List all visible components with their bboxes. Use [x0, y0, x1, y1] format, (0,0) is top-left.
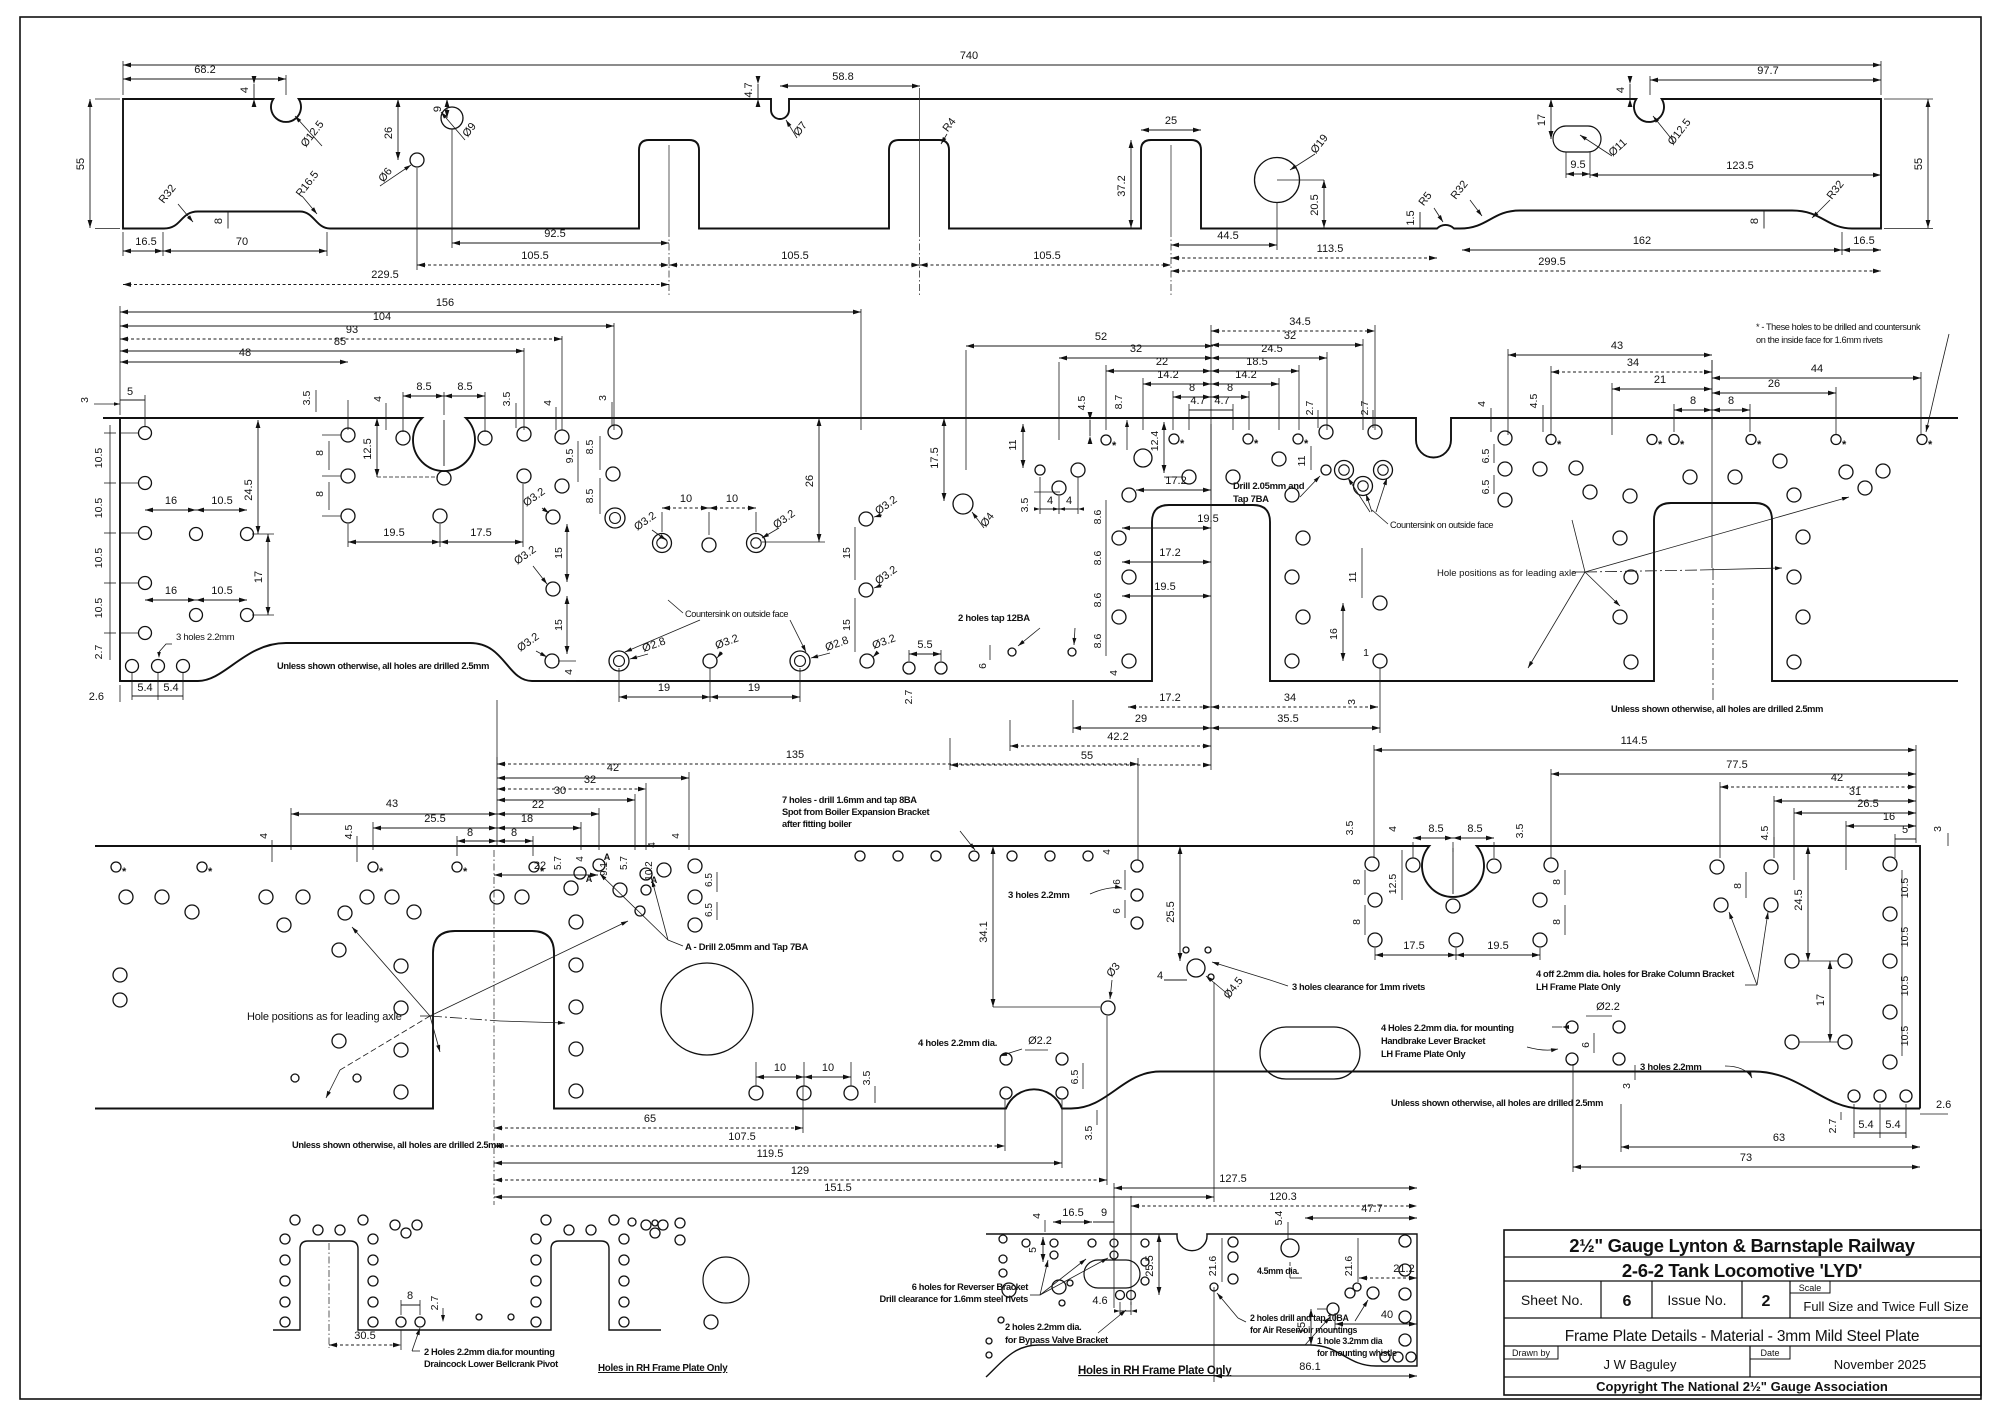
- view1 dim 4 right notch: [1629, 84, 1631, 99]
- svg-text:92.5: 92.5: [544, 228, 565, 240]
- view2 dim 26 vertical: [818, 418, 820, 542]
- view1 dim 113.5: [1171, 257, 1437, 259]
- view2 dims 19.5 17.5: [347, 524, 349, 547]
- view2 stacked dims 48/85/93/104/156: [347, 400, 349, 430]
- svg-text:19.5: 19.5: [1487, 940, 1508, 952]
- svg-text:105.5: 105.5: [521, 250, 549, 262]
- svg-text:63: 63: [1773, 1132, 1785, 1144]
- svg-text:12.5: 12.5: [362, 438, 374, 459]
- svg-text:4: 4: [258, 833, 270, 839]
- svg-text:114.5: 114.5: [1621, 735, 1648, 747]
- svg-text:A: A: [604, 852, 611, 862]
- svg-text:4: 4: [563, 669, 575, 675]
- svg-text:4: 4: [1476, 401, 1488, 407]
- svg-text:for mounting whistle: for mounting whistle: [1317, 1348, 1397, 1358]
- view2 left phi3.2 column holes: [546, 510, 560, 524]
- svg-text:Holes in RH Frame Plate Only: Holes in RH Frame Plate Only: [598, 1363, 728, 1374]
- svg-text:10: 10: [774, 1062, 786, 1074]
- svg-text:10.5: 10.5: [1899, 976, 1911, 997]
- svg-text:17: 17: [1536, 114, 1548, 126]
- svg-text:17: 17: [253, 571, 265, 583]
- view1 dim 55 left: [89, 99, 91, 228]
- svg-text:740: 740: [960, 50, 978, 62]
- svg-text:8: 8: [467, 827, 473, 839]
- svg-text:6.5: 6.5: [1480, 480, 1492, 495]
- view2 right stacked dims 43/34/21/26/44: [1711, 360, 1713, 430]
- title block frame: [1504, 1230, 1981, 1395]
- svg-text:Drawn by: Drawn by: [1512, 1348, 1551, 1358]
- view2 gap1 right holes: [1285, 488, 1299, 502]
- bottommiddle dims top: [1113, 1183, 1115, 1308]
- svg-text:5: 5: [127, 386, 133, 398]
- svg-text:107.5: 107.5: [728, 1131, 756, 1143]
- svg-text:17.5: 17.5: [929, 447, 941, 468]
- svg-text:123.5: 123.5: [1726, 160, 1754, 172]
- bottommiddle corner holes: [1380, 1352, 1390, 1362]
- view2 star hole 4.5: [1101, 435, 1111, 445]
- svg-text:3 holes 2.2mm: 3 holes 2.2mm: [1640, 1062, 1702, 1073]
- svg-text:4.7: 4.7: [1214, 395, 1229, 407]
- svg-text:Scale: Scale: [1799, 1283, 1822, 1293]
- svg-text:40: 40: [1381, 1309, 1393, 1321]
- svg-text:105.5: 105.5: [781, 250, 809, 262]
- svg-text:162: 162: [1633, 235, 1651, 247]
- svg-text:2.7: 2.7: [1304, 401, 1316, 416]
- view2 right phi3.2 column: [859, 512, 873, 526]
- svg-text:10.5: 10.5: [211, 585, 232, 597]
- dim 135: [496, 700, 498, 770]
- view3 left stacked dims 42/32/30/22/43/18/25.5: [688, 772, 690, 850]
- svg-text:2 Holes 2.2mm dia.for mounting: 2 Holes 2.2mm dia.for mounting: [424, 1347, 555, 1357]
- svg-text:77.5: 77.5: [1726, 759, 1747, 771]
- svg-text:4.5: 4.5: [1759, 826, 1771, 841]
- view3 handbrake holes: [1566, 1021, 1578, 1033]
- view1 dim 9: [446, 99, 448, 118]
- view2 bottom row rings and holes: [609, 651, 629, 671]
- svg-text:86.1: 86.1: [1299, 1361, 1320, 1373]
- svg-text:26.5: 26.5: [1857, 798, 1878, 810]
- svg-text:18.5: 18.5: [1246, 356, 1267, 368]
- svg-text:8: 8: [314, 491, 326, 497]
- svg-text:*: *: [1254, 438, 1259, 450]
- bottomleft gap2 top holes: [541, 1215, 551, 1225]
- svg-text:151.5: 151.5: [824, 1182, 852, 1194]
- svg-text:8: 8: [1189, 382, 1195, 394]
- svg-text:4: 4: [671, 833, 682, 839]
- svg-text:10: 10: [726, 493, 738, 505]
- view1 dim 25 slot width: [1141, 129, 1201, 131]
- bottommiddle dims 16.5 9 4: [1053, 1221, 1092, 1223]
- view2 16/10.5 dims lower: [190, 609, 203, 622]
- svg-text:4: 4: [542, 400, 554, 406]
- svg-text:5.7: 5.7: [619, 856, 630, 870]
- svg-text:LH Frame Plate Only: LH Frame Plate Only: [1381, 1049, 1466, 1059]
- view2 small holes 5.5: [903, 662, 915, 674]
- svg-text:4: 4: [1615, 87, 1627, 93]
- svg-text:19: 19: [748, 682, 760, 694]
- svg-text:42: 42: [1831, 772, 1843, 784]
- svg-text:4: 4: [1047, 495, 1053, 507]
- bottomleft hole columns gap1: [280, 1234, 290, 1244]
- svg-text:25.5: 25.5: [424, 813, 445, 825]
- svg-text:Ø2.2: Ø2.2: [1028, 1035, 1052, 1047]
- view2 right 6.5 column: [1498, 431, 1512, 445]
- svg-text:*: *: [208, 866, 213, 878]
- svg-text:2 holes tap 12BA: 2 holes tap 12BA: [958, 613, 1030, 624]
- svg-text:4: 4: [372, 396, 384, 402]
- svg-text:65: 65: [644, 1113, 656, 1125]
- view1 dim 68.2: [285, 75, 287, 95]
- svg-text:8: 8: [1551, 879, 1563, 885]
- view2 dims 17.2/19.5 ladder: [1136, 489, 1211, 491]
- view3 bump holes: [1000, 1053, 1012, 1065]
- svg-text:18: 18: [521, 813, 533, 825]
- svg-text:2.7: 2.7: [903, 690, 915, 705]
- svg-text:10: 10: [822, 1062, 834, 1074]
- svg-text:10: 10: [680, 493, 692, 505]
- svg-text:9: 9: [1101, 1207, 1107, 1219]
- view2 dim 17.5 phi4: [943, 418, 945, 501]
- svg-text:5.5: 5.5: [917, 639, 932, 651]
- svg-text:3.5: 3.5: [1083, 1126, 1095, 1141]
- svg-text:4: 4: [1031, 1213, 1043, 1219]
- view2 dims 19 19 bottom: [618, 668, 620, 702]
- svg-text:2.7: 2.7: [93, 645, 105, 660]
- title block row3 verticals: [1600, 1281, 1602, 1318]
- svg-text:A: A: [651, 875, 658, 885]
- view2 keyhole centre mark: [443, 420, 445, 466]
- bottommiddle mid column holes: [1141, 1258, 1149, 1266]
- title block drawn by tag: [1504, 1346, 1558, 1359]
- svg-text:135: 135: [786, 749, 804, 761]
- svg-text:10.5: 10.5: [1899, 1026, 1911, 1047]
- svg-text:Holes in RH Frame Plate Only: Holes in RH Frame Plate Only: [1078, 1365, 1232, 1377]
- svg-text:4 off 2.2mm dia. holes for Bra: 4 off 2.2mm dia. holes for Brake Column …: [1536, 969, 1734, 979]
- svg-text:42: 42: [607, 762, 619, 774]
- view3 corner holes: [1848, 1090, 1860, 1102]
- svg-text:6: 6: [977, 663, 989, 669]
- svg-text:*: *: [1658, 439, 1663, 451]
- svg-text:68.2: 68.2: [194, 64, 215, 76]
- view2 dims 10 10: [662, 507, 709, 509]
- svg-text:16: 16: [1328, 628, 1340, 640]
- svg-text:3: 3: [597, 395, 609, 401]
- svg-text:4.6: 4.6: [1092, 1295, 1107, 1307]
- view1 dim 162: [1462, 249, 1842, 251]
- svg-text:24.5: 24.5: [1261, 343, 1282, 355]
- svg-text:6: 6: [1623, 1293, 1632, 1310]
- bottomleft big circle: [703, 1257, 749, 1303]
- svg-text:*: *: [1180, 438, 1185, 450]
- svg-text:15: 15: [841, 547, 853, 559]
- view2 gap1 left cluster holes: [1182, 470, 1196, 484]
- svg-text:Ø2.2: Ø2.2: [1596, 1001, 1620, 1013]
- view3 phi4.5 cluster: [1187, 959, 1205, 977]
- svg-text:4: 4: [647, 842, 658, 848]
- svg-text:73: 73: [1740, 1152, 1752, 1164]
- view1 dim 26: [397, 99, 399, 160]
- svg-text:21.6: 21.6: [1343, 1256, 1355, 1277]
- svg-text:6.5: 6.5: [1480, 449, 1492, 464]
- svg-text:34.1: 34.1: [978, 921, 990, 942]
- view1 dim 9.5: [1566, 173, 1590, 175]
- view2 frame plate outline top edge with cutouts: [103, 418, 1958, 471]
- view1 dim 4 left notch: [253, 84, 255, 99]
- svg-text:85: 85: [334, 336, 346, 348]
- svg-text:2.7: 2.7: [1359, 401, 1371, 416]
- view2 dim 5: [120, 399, 145, 401]
- svg-text:8: 8: [1551, 919, 1563, 925]
- svg-text:1.5: 1.5: [1405, 210, 1417, 225]
- svg-text:3.5: 3.5: [1344, 821, 1356, 836]
- svg-text:4: 4: [575, 856, 586, 862]
- svg-text:12.5: 12.5: [1387, 874, 1399, 895]
- view3 horn gap centre line: [493, 850, 495, 1205]
- view3 dim 25.5: [1179, 846, 1181, 961]
- svg-text:52: 52: [1095, 331, 1107, 343]
- svg-text:1 hole 3.2mm dia: 1 hole 3.2mm dia: [1317, 1336, 1383, 1346]
- view2 dim 17: [267, 534, 269, 615]
- svg-text:8: 8: [1732, 883, 1744, 889]
- svg-text:16.5: 16.5: [1062, 1207, 1083, 1219]
- svg-text:15: 15: [553, 619, 565, 631]
- svg-text:8: 8: [407, 1290, 413, 1302]
- view1 dim 229.5: [123, 284, 669, 286]
- view2 dim 2.6 and bottom holes: [126, 660, 139, 673]
- svg-text:Sheet No.: Sheet No.: [1521, 1292, 1583, 1308]
- svg-text:4: 4: [1157, 970, 1163, 982]
- bottommiddle second row holes: [1050, 1251, 1058, 1259]
- view1 dim 20.5: [1323, 180, 1325, 228]
- svg-text:3: 3: [1346, 699, 1358, 705]
- svg-text:10.5: 10.5: [93, 598, 105, 619]
- svg-text:16: 16: [165, 585, 177, 597]
- svg-text:24.5: 24.5: [243, 479, 255, 500]
- svg-text:113.5: 113.5: [1317, 243, 1344, 255]
- svg-text:4: 4: [1102, 849, 1113, 855]
- svg-text:22: 22: [532, 799, 544, 811]
- svg-text:Hole positions as for leading: Hole positions as for leading axle: [247, 1011, 402, 1023]
- svg-text:17.2: 17.2: [1165, 475, 1186, 487]
- svg-text:3 holes 2.2mm: 3 holes 2.2mm: [1008, 890, 1070, 901]
- view3 right edge hole column: [1883, 857, 1897, 871]
- svg-text:8: 8: [1351, 919, 1363, 925]
- svg-text:119.5: 119.5: [757, 1148, 784, 1160]
- view3 bottom edge with horn gap and bump: [95, 931, 1920, 1109]
- svg-text:8.7: 8.7: [1113, 395, 1125, 410]
- view1 slot centre lines: [668, 145, 670, 230]
- view1 dim 4.7: [757, 84, 759, 99]
- view2 dim 52: [965, 350, 967, 470]
- svg-text:Frame Plate Details - Material: Frame Plate Details - Material - 3mm Mil…: [1565, 1328, 1920, 1345]
- svg-text:14.2: 14.2: [1157, 369, 1178, 381]
- view1 slot phi11: [1553, 126, 1601, 152]
- view3 tiny holes: [291, 1074, 299, 1082]
- svg-text:2.7: 2.7: [1827, 1119, 1839, 1134]
- svg-text:4: 4: [1066, 495, 1072, 507]
- view2 countersunk rings row mid: [653, 534, 672, 553]
- svg-text:15: 15: [1296, 1322, 1308, 1334]
- svg-text:16: 16: [1883, 811, 1895, 823]
- svg-text:5.4: 5.4: [1273, 1211, 1285, 1226]
- view2 keyhole cluster holes: [341, 428, 355, 442]
- view3 keyhole dims: [1413, 837, 1453, 839]
- bottommiddle col2 holes: [1228, 1237, 1238, 1247]
- view2 hole 8.7: [1134, 449, 1152, 467]
- view1 dim 37.2: [1130, 140, 1132, 228]
- svg-text:6.5: 6.5: [704, 873, 715, 887]
- svg-text:*: *: [1680, 439, 1685, 451]
- svg-text:6 holes for Reverser Bracket: 6 holes for Reverser Bracket: [912, 1282, 1029, 1292]
- view3 gap cluster columns: [394, 959, 408, 973]
- svg-text:58.8: 58.8: [832, 71, 853, 83]
- svg-text:8: 8: [511, 827, 517, 839]
- svg-text:3.5: 3.5: [861, 1071, 873, 1086]
- svg-text:25.5: 25.5: [1144, 1255, 1156, 1276]
- svg-text:21.6: 21.6: [1207, 1256, 1219, 1277]
- svg-text:17.5: 17.5: [1403, 940, 1424, 952]
- svg-text:11: 11: [1296, 455, 1308, 466]
- svg-text:2½" Gauge Lynton & Barnstaple: 2½" Gauge Lynton & Barnstaple Railway: [1569, 1235, 1916, 1256]
- view3 phi3 hole: [1101, 1001, 1115, 1015]
- bottommiddle air res holes: [1367, 1287, 1379, 1299]
- view1 dim 16.5 right: [1842, 249, 1881, 251]
- view1 dim 58.8: [780, 85, 920, 87]
- svg-text:3: 3: [79, 397, 91, 403]
- svg-text:* - These holes to be drilled: * - These holes to be drilled and counte…: [1756, 322, 1921, 332]
- svg-text:4.7: 4.7: [1190, 395, 1205, 407]
- svg-text:*: *: [122, 866, 127, 878]
- title block date tag: [1750, 1346, 1790, 1359]
- svg-text:14.2: 14.2: [1235, 369, 1256, 381]
- svg-text:44: 44: [1811, 363, 1823, 375]
- view3 dims 10 10 holes: [749, 1086, 763, 1100]
- bottomleft extra holes: [704, 1315, 718, 1329]
- view3 top edge with keyhole cutout: [95, 846, 1920, 1109]
- svg-text:4 Holes 2.2mm dia. for mountin: 4 Holes 2.2mm dia. for mounting: [1381, 1023, 1514, 1033]
- svg-text:34.5: 34.5: [1289, 316, 1310, 328]
- svg-text:*: *: [379, 866, 384, 878]
- svg-text:2 holes 2.2mm dia.: 2 holes 2.2mm dia.: [1005, 1322, 1081, 1332]
- svg-text:8: 8: [1728, 395, 1734, 407]
- view2 gap2 left hole column: [1623, 489, 1637, 503]
- svg-text:Spot from Boiler Expansion Bra: Spot from Boiler Expansion Bracket: [782, 807, 929, 817]
- bottommiddle dim 25.5: [1158, 1234, 1160, 1295]
- svg-text:LH Frame Plate Only: LH Frame Plate Only: [1536, 982, 1621, 992]
- svg-text:3 holes clearance for 1mm rive: 3 holes clearance for 1mm rivets: [1292, 982, 1425, 992]
- svg-text:9.5: 9.5: [1570, 159, 1585, 171]
- view2 dims 8.5 8.5 keyhole: [402, 392, 404, 432]
- svg-text:97.7: 97.7: [1757, 65, 1778, 77]
- svg-text:*: *: [1928, 439, 1933, 451]
- svg-text:8: 8: [314, 450, 326, 456]
- svg-text:10.5: 10.5: [93, 448, 105, 469]
- svg-text:November 2025: November 2025: [1834, 1357, 1927, 1372]
- svg-text:8.6: 8.6: [1092, 510, 1104, 525]
- svg-text:19.5: 19.5: [383, 527, 404, 539]
- view3 oval slot: [1260, 1027, 1360, 1079]
- bottommiddle outline: [986, 1234, 1417, 1377]
- svg-text:Tap 7BA: Tap 7BA: [1233, 494, 1269, 505]
- view3 A holes cluster: [574, 867, 586, 879]
- svg-text:17.2: 17.2: [1159, 692, 1180, 704]
- view1 dim 1.5 bump: [1419, 212, 1421, 228]
- view2 dims 5.4 5.4: [131, 673, 133, 700]
- bottommiddle bypass holes: [1052, 1280, 1066, 1294]
- view2 gap2 right hole column: [1787, 488, 1801, 502]
- svg-text:Hole positions as for leading: Hole positions as for leading axle: [1437, 568, 1576, 579]
- svg-text:Unless shown otherwise, all ho: Unless shown otherwise, all holes are dr…: [292, 1140, 504, 1150]
- svg-text:20.5: 20.5: [1309, 194, 1321, 215]
- svg-text:44.5: 44.5: [1217, 230, 1238, 242]
- bottommiddle right col holes: [1399, 1235, 1411, 1247]
- svg-text:9.5: 9.5: [564, 449, 576, 464]
- view3 top left cluster: [657, 863, 671, 877]
- svg-text:26: 26: [804, 475, 816, 487]
- svg-text:Drill 2.05mm and: Drill 2.05mm and: [1233, 481, 1305, 492]
- svg-text:105.5: 105.5: [1033, 250, 1061, 262]
- svg-text:6: 6: [1112, 879, 1123, 885]
- bottommiddle whistle hole: [1327, 1303, 1339, 1315]
- svg-text:16: 16: [165, 495, 177, 507]
- svg-text:Countersink on outside face: Countersink on outside face: [685, 609, 788, 619]
- svg-text:22: 22: [534, 860, 546, 872]
- svg-text:8.5: 8.5: [584, 440, 596, 455]
- bottomleft centre line: [328, 1243, 330, 1348]
- view3 star holes row: [111, 862, 121, 872]
- svg-text:5.4: 5.4: [1885, 1119, 1900, 1131]
- svg-text:4.5: 4.5: [1528, 394, 1540, 409]
- bottommiddle 21.2: [1359, 1277, 1417, 1279]
- svg-text:9: 9: [432, 106, 444, 112]
- bottomleft 2 pivot holes: [396, 1317, 406, 1327]
- svg-text:48: 48: [239, 347, 251, 359]
- svg-text:*: *: [1112, 440, 1117, 452]
- svg-text:30.5: 30.5: [354, 1330, 375, 1342]
- svg-text:8.5: 8.5: [416, 381, 431, 393]
- view3 keyhole centre mark: [1452, 848, 1454, 894]
- svg-text:19.5: 19.5: [1197, 513, 1218, 525]
- svg-text:10.5: 10.5: [1899, 878, 1911, 899]
- svg-text:4: 4: [1387, 826, 1399, 832]
- svg-text:17: 17: [1815, 994, 1827, 1006]
- svg-text:*: *: [1842, 439, 1847, 451]
- svg-text:3 holes 2.2mm: 3 holes 2.2mm: [176, 632, 235, 643]
- bottomleft hole columns gap2: [531, 1234, 541, 1244]
- svg-text:10.5: 10.5: [1899, 927, 1911, 948]
- svg-text:24.5: 24.5: [1793, 889, 1805, 910]
- svg-text:32: 32: [1284, 330, 1296, 342]
- svg-text:70: 70: [236, 236, 248, 248]
- view2 left edge and bottom edge with horn gaps: [120, 418, 1958, 681]
- svg-text:4.5mm dia.: 4.5mm dia.: [1257, 1266, 1299, 1276]
- svg-text:8.6: 8.6: [1092, 593, 1104, 608]
- svg-text:Handbrake Lever Bracket: Handbrake Lever Bracket: [1381, 1036, 1485, 1046]
- view1 hole phi6: [410, 153, 424, 167]
- svg-text:for Bypass Valve Bracket: for Bypass Valve Bracket: [1005, 1335, 1108, 1345]
- svg-text:8.6: 8.6: [1092, 551, 1104, 566]
- svg-text:22: 22: [1156, 356, 1168, 368]
- view2 horn gap centre lines: [1210, 424, 1212, 770]
- svg-text:2.6: 2.6: [89, 691, 104, 703]
- svg-text:4.5: 4.5: [343, 825, 355, 840]
- svg-text:7 holes - drill 1.6mm and tap: 7 holes - drill 1.6mm and tap 8BA: [782, 795, 917, 805]
- svg-text:4: 4: [239, 87, 251, 93]
- svg-text:1: 1: [1363, 647, 1369, 659]
- view3 bottom stacked dims: [802, 1086, 804, 1133]
- svg-text:4: 4: [1108, 670, 1120, 676]
- svg-text:19: 19: [658, 682, 670, 694]
